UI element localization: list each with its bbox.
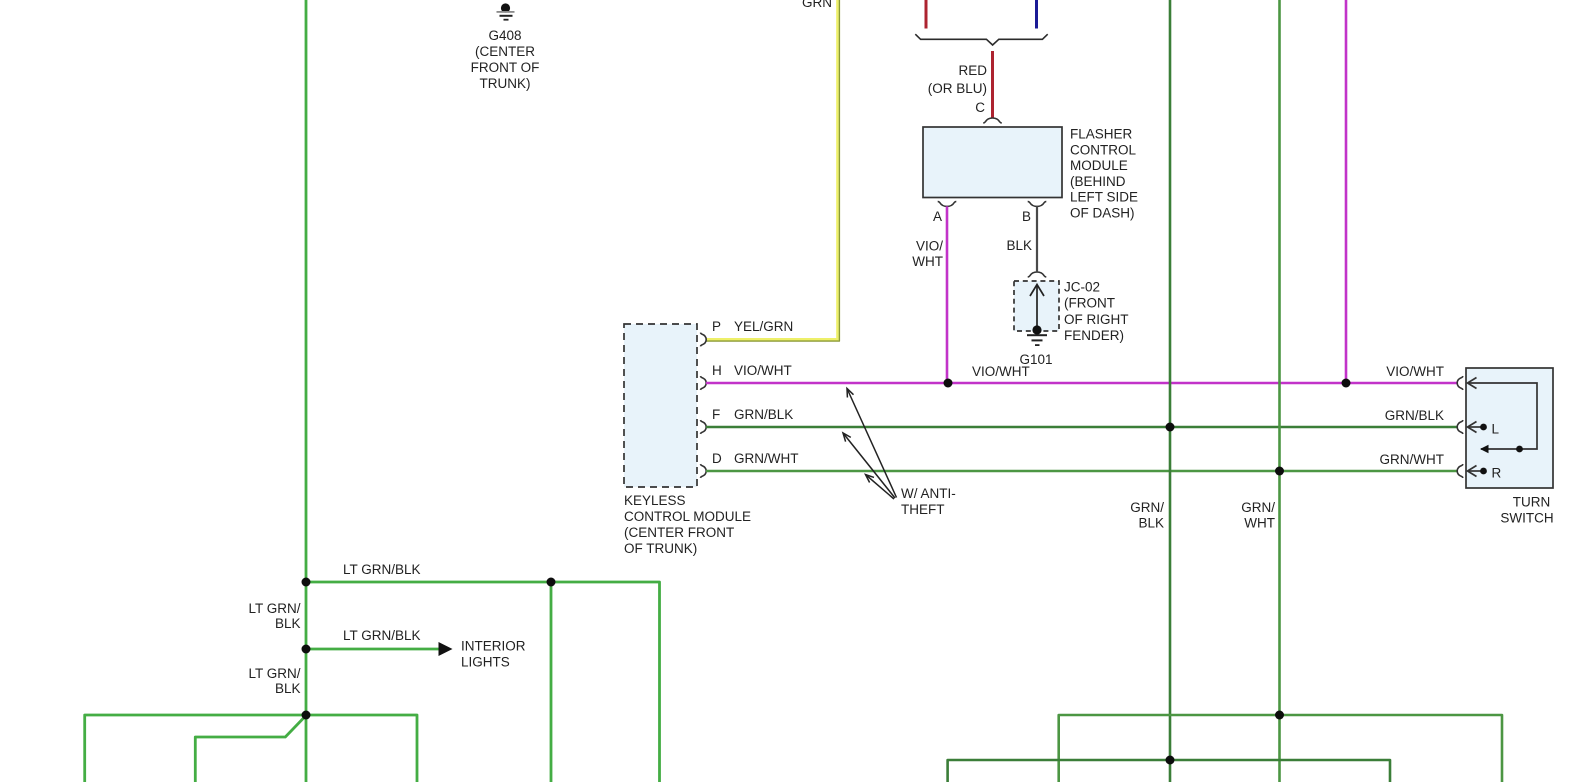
wire GRN/BLK bottom loop [948, 760, 1390, 782]
connector (turn switch VIO/WHT) [1457, 376, 1463, 390]
svg-text:WHT: WHT [912, 254, 943, 269]
svg-text:(BEHIND: (BEHIND [1070, 174, 1126, 189]
svg-text:OF TRUNK): OF TRUNK) [624, 541, 697, 556]
junction bottom distribution [302, 711, 311, 720]
svg-text:B: B [1022, 209, 1031, 224]
svg-text:LIGHTS: LIGHTS [461, 655, 510, 670]
wire BLK from flasher B [1036, 206, 1038, 271]
brace (wire group) [915, 34, 1047, 45]
svg-text:JC-02: JC-02 [1064, 280, 1100, 295]
label INTERIOR LIGHTS [461, 639, 526, 670]
flasher control module [923, 127, 1062, 198]
svg-text:D: D [712, 451, 722, 466]
svg-text:LT GRN/: LT GRN/ [248, 666, 300, 681]
svg-text:FENDER): FENDER) [1064, 328, 1124, 343]
svg-text:A: A [933, 209, 942, 224]
svg-text:GRN/WHT: GRN/WHT [734, 451, 799, 466]
wire LT GRN/BLK to interior lights [306, 648, 439, 651]
svg-text:WHT: WHT [1244, 516, 1275, 531]
connector pin H (keyless) [700, 376, 706, 390]
svg-text:VIO/WHT: VIO/WHT [972, 364, 1030, 379]
anti-theft callout arrows [843, 389, 897, 500]
wire GRN/WHT bottom loop [1059, 715, 1502, 782]
wire VIO/WHT vertical (top right) [1345, 0, 1348, 383]
svg-text:(CENTER FRONT: (CENTER FRONT [624, 525, 734, 540]
wire VIO/WHT from flasher A [946, 206, 949, 383]
node G408 label [471, 28, 540, 91]
svg-text:THEFT: THEFT [901, 502, 945, 517]
svg-text:RED: RED [958, 63, 987, 78]
connector pin B (flasher bottom) [1028, 201, 1047, 206]
junction GRN/BLK at vertical [1166, 423, 1175, 432]
svg-text:OF RIGHT: OF RIGHT [1064, 312, 1129, 327]
connector pin C (flasher top) [983, 118, 1002, 123]
svg-text:F: F [712, 407, 720, 422]
svg-text:TRUNK): TRUNK) [480, 76, 531, 91]
turn switch [1466, 368, 1553, 488]
svg-text:R: R [1492, 466, 1502, 481]
svg-text:FLASHER: FLASHER [1070, 127, 1133, 142]
connector pin A (flasher bottom) [938, 201, 957, 206]
keyless control module [624, 324, 697, 487]
svg-text:W/ ANTI-: W/ ANTI- [901, 486, 956, 501]
svg-text:VIO/WHT: VIO/WHT [734, 363, 792, 378]
svg-text:INTERIOR: INTERIOR [461, 639, 526, 654]
svg-text:(CENTER: (CENTER [475, 44, 535, 59]
wire RED (OR BLU) into flasher pin C [991, 51, 994, 118]
wire GRN/BLK vertical [1169, 0, 1172, 782]
turn switch wiper arrow [1480, 445, 1489, 453]
wire GRN/WHT (D to turn switch) [706, 470, 1457, 473]
connector pin D (keyless) [700, 464, 706, 478]
junction LT GRN/BLK branch [547, 578, 556, 587]
connector (turn switch L) [1457, 420, 1463, 434]
svg-text:GRN/BLK: GRN/BLK [1385, 408, 1444, 423]
wire LT GRN/BLK jog branch [195, 716, 306, 782]
wire BLU (right feed) [1035, 0, 1038, 29]
JC-02 label [1064, 280, 1129, 344]
turn switch wiper pivot dot [1516, 446, 1523, 453]
label W/ ANTI-THEFT [901, 486, 956, 517]
connector pin P (keyless) [700, 333, 706, 347]
svg-text:LT GRN/BLK: LT GRN/BLK [343, 628, 421, 643]
turn switch label [1500, 495, 1553, 526]
svg-text:CONTROL: CONTROL [1070, 142, 1136, 157]
label GRN/WHT vertical [1241, 500, 1275, 531]
turn switch R contact [1468, 466, 1502, 481]
junction GRN/BLK bottom [1166, 756, 1175, 765]
wire LT GRN/BLK drop at 551 [550, 582, 553, 782]
svg-text:GRN/BLK: GRN/BLK [734, 407, 793, 422]
svg-text:KEYLESS: KEYLESS [624, 493, 686, 508]
svg-text:SWITCH: SWITCH [1500, 511, 1553, 526]
svg-text:(OR BLU): (OR BLU) [928, 81, 987, 96]
svg-text:YEL/GRN: YEL/GRN [734, 319, 793, 334]
svg-text:FRONT OF: FRONT OF [471, 60, 540, 75]
label RED (OR BLU) [928, 63, 988, 96]
svg-text:VIO/: VIO/ [916, 239, 943, 254]
wire LT GRN/BLK main vertical [305, 0, 308, 782]
flasher control module label [1070, 127, 1138, 221]
connector (turn switch R) [1457, 464, 1463, 478]
svg-text:G408: G408 [488, 28, 521, 43]
svg-text:BLK: BLK [1006, 238, 1032, 253]
label LT GRN/BLK (left of vertical) [248, 601, 300, 631]
turn switch L contact [1468, 422, 1500, 437]
svg-text:LEFT SIDE: LEFT SIDE [1070, 190, 1138, 205]
label GRN/BLK vertical [1130, 500, 1164, 531]
wire GRN/WHT vertical [1278, 0, 1281, 782]
svg-text:CONTROL MODULE: CONTROL MODULE [624, 509, 751, 524]
svg-text:GRN/WHT: GRN/WHT [1380, 452, 1445, 467]
junction VIO/WHT at flasher A drop [944, 379, 953, 388]
wire LT GRN/BLK bottom distribution [85, 715, 417, 782]
svg-text:LT GRN/BLK: LT GRN/BLK [343, 562, 421, 577]
svg-text:BLK: BLK [275, 616, 301, 631]
ground G101 [1027, 325, 1047, 346]
label LT GRN/BLK (lower) [248, 666, 300, 696]
svg-text:(FRONT: (FRONT [1064, 296, 1115, 311]
svg-text:VIO/WHT: VIO/WHT [1386, 364, 1444, 379]
turn switch internal wiper feed [1468, 378, 1538, 450]
junction GRN/WHT bottom [1275, 711, 1284, 720]
connector pin F (keyless) [700, 420, 706, 434]
svg-text:LT GRN/: LT GRN/ [248, 601, 300, 616]
ground G408 [497, 3, 515, 20]
wire VIO/WHT (H to turn switch) [706, 382, 1457, 385]
junction GRN/WHT at vertical [1275, 467, 1284, 476]
svg-text:GRN/: GRN/ [1241, 500, 1275, 515]
svg-text:P: P [712, 319, 721, 334]
junction interior lights tap [302, 645, 311, 654]
svg-text:GRN: GRN [802, 0, 832, 10]
svg-text:MODULE: MODULE [1070, 158, 1128, 173]
wire RED (left feed) [925, 0, 928, 29]
keyless control module label [624, 493, 751, 556]
svg-text:BLK: BLK [1138, 516, 1164, 531]
svg-text:C: C [975, 100, 985, 115]
wire LT GRN/BLK branch horizontal [306, 582, 660, 782]
junction VIO/WHT at vertical [1342, 379, 1351, 388]
svg-text:L: L [1492, 422, 1500, 437]
svg-text:TURN: TURN [1513, 495, 1551, 510]
junction connector JC-02 [1014, 272, 1059, 331]
interior lights arrow [439, 642, 453, 656]
svg-text:H: H [712, 363, 722, 378]
wire GRN/BLK (F to turn switch) [706, 426, 1457, 429]
svg-text:OF DASH): OF DASH) [1070, 206, 1135, 221]
svg-text:BLK: BLK [275, 681, 301, 696]
svg-text:GRN/: GRN/ [1130, 500, 1164, 515]
wire YEL/GRN from keyless pin P [706, 0, 838, 339]
label VIO/WHT (vertical wire) [912, 239, 943, 270]
junction LT GRN/BLK main [302, 578, 311, 587]
